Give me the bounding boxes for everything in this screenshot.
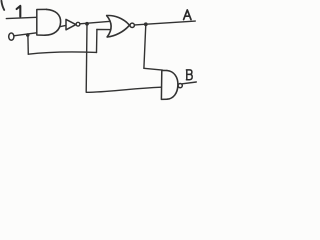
node junction J2 xyxy=(144,22,148,26)
wire AND output to inverter xyxy=(60,25,66,26)
corner mark top-left xyxy=(1,1,4,10)
label 1 xyxy=(17,6,21,17)
label A xyxy=(184,10,191,20)
node junction J1 xyxy=(26,33,30,37)
node junction J3 xyxy=(85,22,89,26)
wire J2 down (V2) xyxy=(144,24,146,68)
wire long horizontal to NOR elbow xyxy=(28,52,96,54)
wire NAND output to B xyxy=(182,82,196,84)
wire elbow up xyxy=(96,30,98,53)
NOR gate G2 xyxy=(107,16,111,37)
NAND gate G3 xyxy=(161,70,167,99)
label B xyxy=(186,70,192,80)
wire NOR output to A xyxy=(135,21,196,25)
wire bottom to NAND bottom input xyxy=(86,87,161,92)
wire J1 down xyxy=(27,35,29,54)
AND gate G1 xyxy=(37,9,47,35)
wire inverter to NOR top input xyxy=(80,21,109,23)
input terminal circle xyxy=(9,33,14,40)
inverter U1 xyxy=(66,19,76,29)
wire V2 to NAND top input xyxy=(144,68,163,70)
wire J3 down (V1) xyxy=(85,24,88,92)
wire circle to AND bottom input xyxy=(15,33,37,36)
wire elbow to NOR bottom input xyxy=(97,29,110,31)
wire input 1 to AND top input xyxy=(6,17,36,18)
